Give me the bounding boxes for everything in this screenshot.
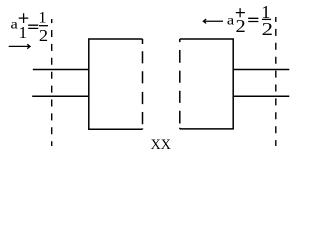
svg-text:a: a [227, 12, 234, 27]
network block 1: dashed right edge [142, 39, 144, 129]
wave a1 direction arrow (right) [9, 44, 30, 48]
network block 2: dashed left edge [179, 39, 181, 129]
node a2+ label: equals (drawn) [248, 18, 258, 21]
svg-text:1: 1 [38, 8, 46, 27]
svg-text:2: 2 [236, 16, 246, 36]
node a1+ value: fraction bar [39, 25, 48, 27]
svg-text:2: 2 [262, 19, 273, 39]
svg-text:2: 2 [39, 26, 48, 45]
network block 2: solid top, right and bottom edges [180, 39, 233, 129]
reference plane 1 (dashed) [51, 19, 53, 146]
wave a2 direction arrow (left) [203, 19, 223, 23]
svg-text:a: a [11, 17, 18, 32]
node a1+ label: superscript + (drawn) [19, 13, 29, 23]
reference plane 2 (dashed) [275, 17, 277, 146]
svg-text:1: 1 [19, 23, 28, 42]
svg-text:XX: XX [151, 136, 171, 153]
port 1 lead (top) [33, 69, 90, 71]
node a2+ value: fraction bar [262, 18, 271, 20]
port 2 lead (top) [233, 69, 290, 71]
network block 1: solid left, top and bottom edges [89, 39, 143, 129]
port 2 lead (bottom) [233, 95, 290, 97]
node a2+ label: superscript + (drawn) [236, 8, 245, 17]
node a1+ label: equals (drawn) [28, 25, 38, 28]
port 1 lead (bottom) [32, 95, 89, 97]
